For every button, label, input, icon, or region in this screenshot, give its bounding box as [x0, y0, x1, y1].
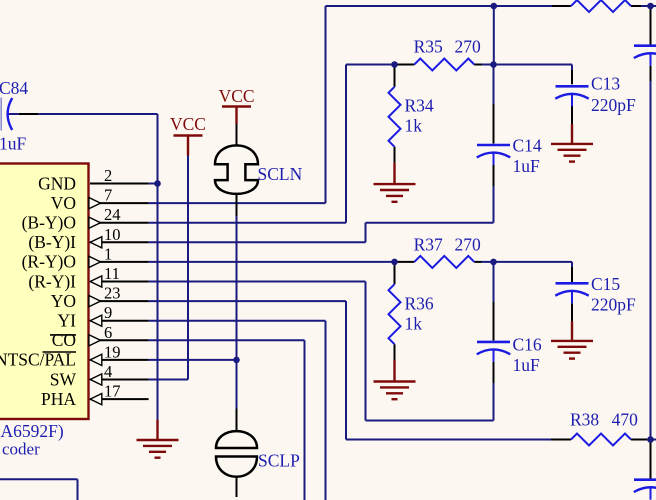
svg-text:C16: C16 [513, 335, 542, 355]
svg-text:GND: GND [38, 173, 76, 193]
svg-text:24: 24 [104, 205, 121, 224]
svg-text:SCLN: SCLN [258, 164, 303, 184]
svg-text:1uF: 1uF [0, 134, 27, 154]
svg-text:PHA: PHA [41, 389, 76, 409]
svg-text:VCC: VCC [170, 114, 206, 134]
svg-text:R34: R34 [405, 96, 434, 116]
svg-text:7: 7 [104, 186, 112, 205]
svg-text:6: 6 [104, 323, 112, 342]
svg-text:coder: coder [2, 439, 40, 458]
svg-text:R38: R38 [570, 410, 599, 430]
svg-text:(B-Y)I: (B-Y)I [28, 232, 76, 252]
svg-text:(R-Y)O: (R-Y)O [22, 252, 76, 272]
svg-text:9: 9 [104, 303, 112, 322]
svg-text:YI: YI [58, 311, 77, 331]
svg-text:1: 1 [104, 244, 112, 263]
svg-text:(B-Y)O: (B-Y)O [22, 213, 76, 233]
svg-text:CO: CO [52, 330, 76, 350]
svg-text:YO: YO [51, 291, 76, 311]
svg-text:1k: 1k [405, 116, 423, 136]
svg-text:SW: SW [50, 369, 77, 389]
svg-text:C84: C84 [0, 78, 28, 98]
svg-text:R36: R36 [405, 294, 434, 314]
svg-text:220pF: 220pF [591, 295, 636, 315]
svg-text:220pF: 220pF [591, 95, 636, 115]
svg-text:470: 470 [612, 410, 639, 430]
svg-text:2: 2 [104, 166, 112, 185]
svg-text:C13: C13 [591, 74, 620, 94]
svg-text:23: 23 [104, 284, 121, 303]
svg-text:VCC: VCC [219, 86, 255, 106]
svg-text:C14: C14 [513, 136, 542, 156]
svg-text:270: 270 [455, 235, 482, 255]
svg-text:4: 4 [104, 362, 112, 381]
svg-text:19: 19 [104, 342, 121, 361]
svg-text:11: 11 [104, 264, 120, 283]
svg-text:VO: VO [51, 193, 76, 213]
svg-text:SCLP: SCLP [258, 451, 300, 471]
svg-text:270: 270 [455, 37, 482, 57]
svg-text:17: 17 [104, 382, 121, 401]
svg-text:10: 10 [104, 225, 121, 244]
svg-text:1uF: 1uF [513, 156, 541, 176]
svg-text:1k: 1k [405, 314, 423, 334]
svg-text:(R-Y)I: (R-Y)I [28, 271, 76, 291]
svg-text:R35: R35 [414, 37, 443, 57]
svg-text:A6592F): A6592F) [1, 421, 64, 441]
svg-text:C15: C15 [591, 274, 620, 294]
svg-text:R37: R37 [414, 235, 443, 255]
svg-text:1uF: 1uF [513, 355, 541, 375]
